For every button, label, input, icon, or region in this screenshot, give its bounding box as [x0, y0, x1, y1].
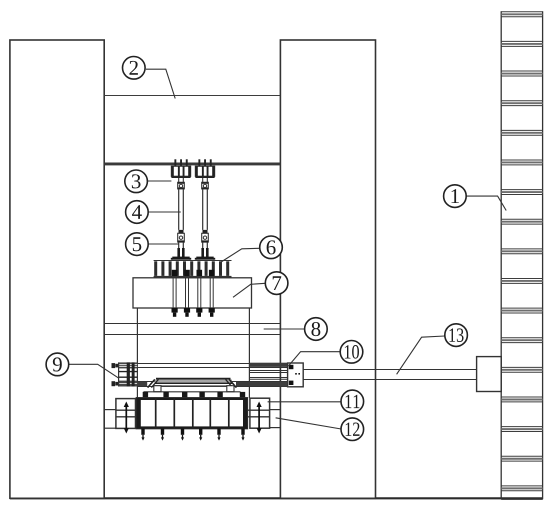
right column of press frame [280, 40, 375, 498]
callout circle 7 [265, 272, 288, 295]
callout circle 10 [340, 341, 363, 364]
callout leader 7 [233, 283, 265, 297]
callout circle 9 [46, 353, 69, 376]
callout circle 12 [341, 418, 364, 441]
callout circle 4 [126, 201, 149, 224]
callout leader 3 [148, 180, 172, 182]
toothed guide rack 1 [501, 11, 542, 499]
upper pressing block 7 [133, 278, 252, 308]
callout leader 10 [288, 352, 340, 366]
callout leader 5 [148, 243, 178, 245]
right side clamp bracket [247, 398, 280, 433]
callout circle 2 [123, 57, 146, 80]
callout leader 12 [276, 418, 342, 429]
lower clamp plate [143, 392, 246, 398]
base plate / ground line [10, 497, 543, 499]
moving platen 8 [104, 324, 280, 335]
four clamping bolts through block 7 [172, 270, 215, 317]
callout leader 4 [148, 211, 181, 213]
drive box on rack [477, 357, 502, 392]
callout leader 6 [221, 248, 260, 262]
horizontal cylinder body 10 [249, 371, 287, 380]
hydraulic cylinder assembly B (items 3-5) [195, 159, 215, 259]
callout leader 2 [146, 69, 175, 98]
lower bolster block 11 [136, 398, 247, 429]
callout circle 13 [445, 324, 468, 347]
left side clamp bracket [104, 399, 136, 434]
callout leader 9 [69, 364, 119, 378]
anchor bolts 12 under lower block [141, 429, 244, 441]
actuator end cap 10 [288, 363, 304, 387]
callout circle 5 [126, 233, 149, 256]
callout leader 8 [264, 328, 305, 330]
callout circle 3 [125, 170, 148, 193]
callout circle 1 [444, 185, 467, 208]
ribbed pressure plate 6 [154, 261, 232, 278]
callout leader 11 [268, 401, 341, 403]
inner guide column left [136, 308, 138, 398]
callout leader 13 [397, 336, 445, 374]
left reaction bracket 9 body [119, 362, 138, 386]
push rod 13 to rack [303, 370, 476, 380]
left column of press frame [10, 40, 104, 498]
hydraulic cylinder assembly A (items 3-5) [171, 159, 191, 259]
inner guide column right [248, 308, 250, 398]
callout circle 8 [305, 318, 328, 341]
specimen plate with wedge grips [148, 379, 237, 392]
callout circle 6 [260, 236, 283, 259]
horizontal actuator bottom rail [137, 382, 287, 387]
callout leader 1 [466, 196, 506, 210]
upper crossbeam 2 [104, 96, 280, 166]
callout circle 11 [341, 390, 364, 413]
horizontal actuator top rail [137, 363, 287, 368]
left reaction bracket 9 bolts [112, 363, 119, 386]
